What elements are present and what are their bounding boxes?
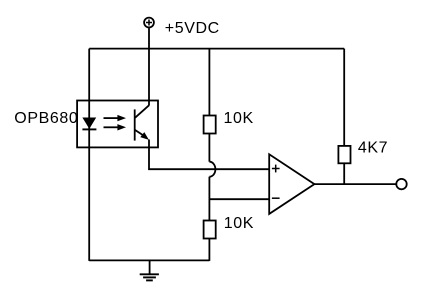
light arrow 2 — [104, 124, 127, 130]
light arrow 1 — [104, 115, 127, 121]
wire: +5V rail — [89, 48, 344, 50]
wire: LED anode/cathode vertical (left side) — [88, 49, 90, 261]
wire: R1 bottom to hop — [208, 134, 210, 162]
LED D1 — [82, 118, 96, 130]
svg-text:10K: 10K — [224, 215, 254, 232]
wire hop over + input wire — [209, 162, 215, 177]
wire: bottom ground rail — [89, 259, 209, 261]
svg-text:4K7: 4K7 — [358, 139, 388, 156]
resistor R2 10K — [204, 221, 216, 239]
resistor R3 4K7 — [338, 146, 350, 163]
wire: divider tap to op-amp - input — [209, 198, 269, 200]
op-amp - input marker — [272, 197, 280, 199]
wire: rail down to R1 — [208, 49, 210, 116]
power terminal +5V — [144, 18, 154, 28]
wire: op-amp output — [314, 183, 396, 185]
svg-text:10K: 10K — [224, 110, 254, 127]
op-amp U2 — [269, 154, 314, 214]
wire: emitter down then right to op-amp + input — [149, 140, 269, 170]
wire: hop down to R2 — [208, 177, 210, 221]
svg-text:+5VDC: +5VDC — [165, 20, 220, 37]
ground — [140, 260, 159, 280]
wire: power stem down to collector — [148, 27, 150, 105]
optocoupler U1 OPB680 box — [77, 101, 158, 148]
wire: R2 bottom to ground rail — [208, 239, 210, 261]
op-amp + input marker — [272, 165, 280, 173]
svg-text:OPB680: OPB680 — [14, 110, 78, 127]
phototransistor Q1 — [135, 105, 149, 140]
output terminal — [396, 179, 406, 189]
resistor R1 10K — [204, 116, 216, 134]
emitter arrowhead — [140, 132, 149, 140]
wire: rail down to R3 — [343, 49, 345, 146]
wire: R3 bottom to output line — [343, 163, 345, 184]
